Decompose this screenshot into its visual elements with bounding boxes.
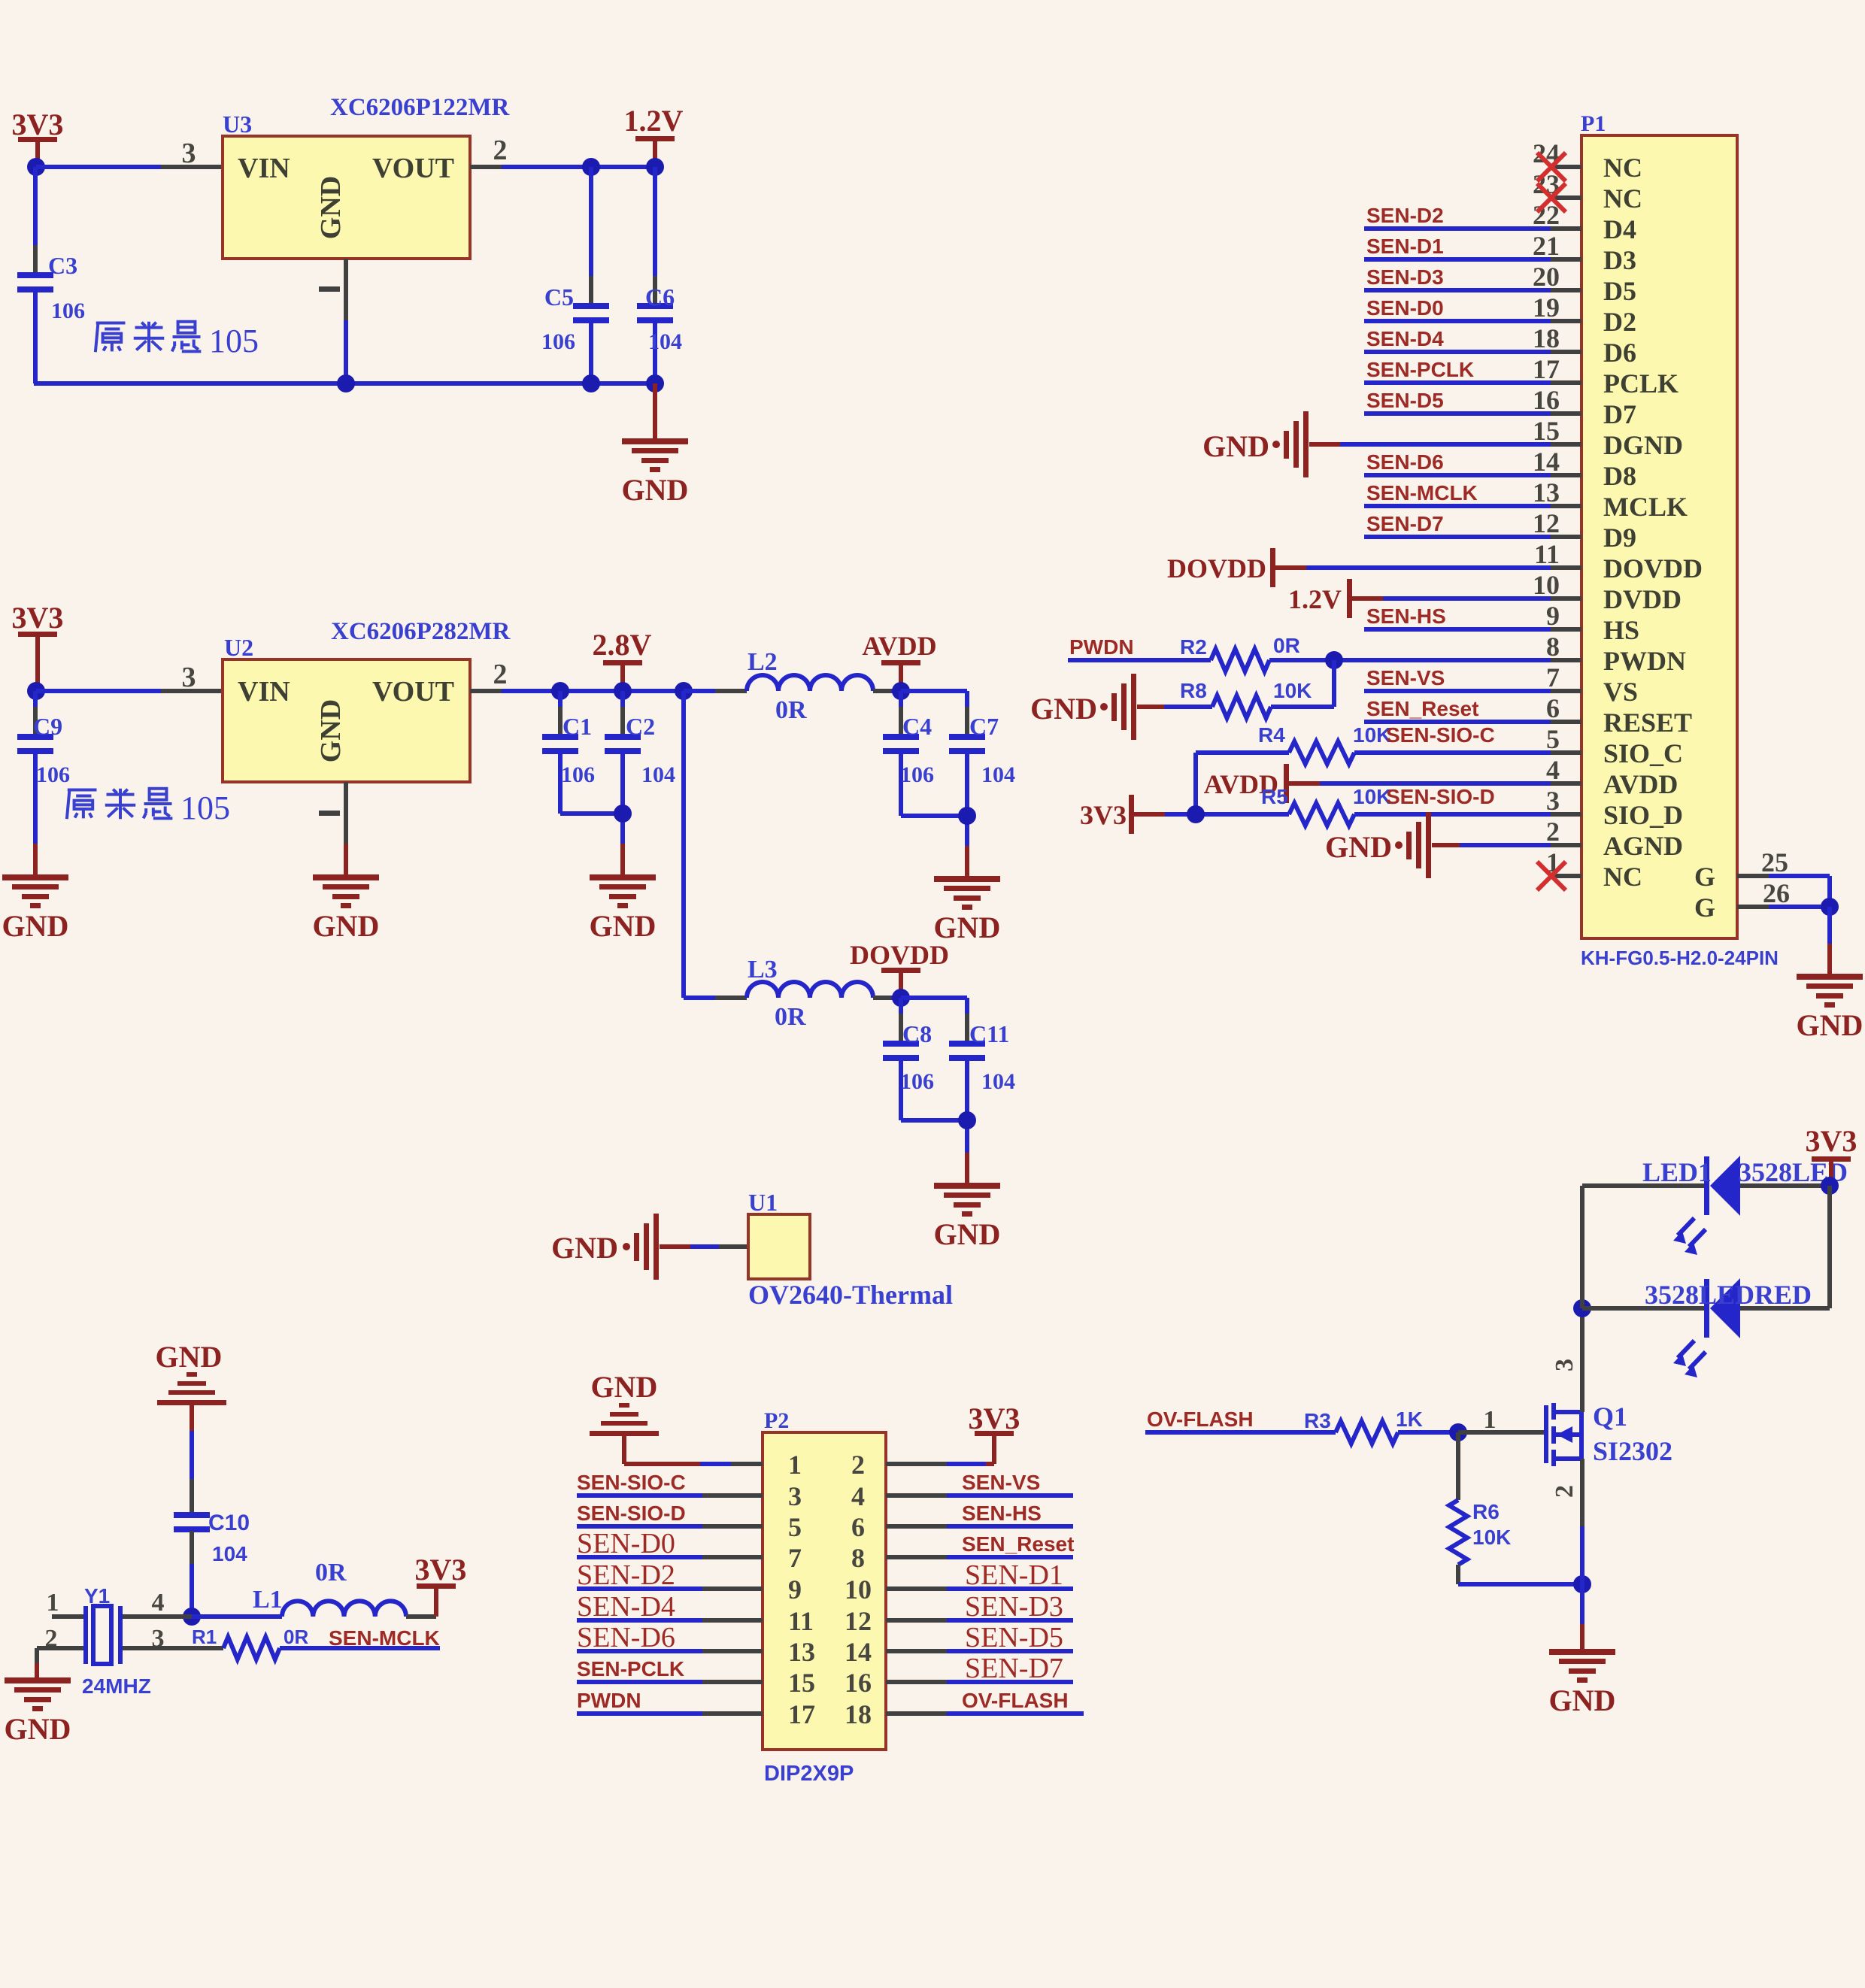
P1 pin name DVDD (pin 10)	[1603, 584, 1682, 614]
svg-text:SEN-D2: SEN-D2	[1366, 204, 1444, 227]
wire net SEN-SIO-D to P2 pin 5	[577, 1524, 763, 1529]
wire junction to L1	[192, 1614, 282, 1619]
svg-text:C4: C4	[902, 713, 932, 740]
svg-text:GND: GND	[1797, 1008, 1863, 1042]
P1 pin name PCLK (pin 17)	[1603, 368, 1679, 399]
U3 pin name GND (rotated)	[315, 176, 347, 239]
P1 part KH-FG0.5-H2.0-24PIN	[1581, 947, 1779, 969]
svg-text:R4: R4	[1258, 723, 1285, 747]
svg-text:3: 3	[182, 138, 196, 169]
svg-text:U3: U3	[223, 111, 252, 138]
P2 pin number 9	[788, 1574, 802, 1605]
thermal pad U1 body	[748, 1214, 810, 1279]
svg-text:C1: C1	[563, 713, 592, 740]
capacitor C4	[883, 691, 919, 816]
P1 pin name D9 (pin 12)	[1603, 523, 1636, 553]
wire ground to U1	[660, 1244, 748, 1249]
svg-text:8: 8	[1546, 632, 1560, 662]
svg-text:NC: NC	[1603, 153, 1642, 183]
U3 pin name VOUT	[372, 153, 454, 184]
P1 pin number 21	[1533, 231, 1560, 261]
svg-text:0R: 0R	[775, 1003, 806, 1031]
svg-text:Q1: Q1	[1593, 1402, 1627, 1432]
P1 pin number 19	[1533, 292, 1560, 323]
note text 原来是105 (top)	[96, 322, 259, 359]
P1 pin name D4 (pin 22)	[1603, 214, 1636, 244]
U2 pin number 2	[493, 659, 508, 690]
ground symbol (U1, side style)	[551, 1214, 659, 1280]
wire 2.8V rail to L2	[684, 689, 747, 693]
P1 pin name D6 (pin 18)	[1603, 338, 1636, 368]
svg-text:VOUT: VOUT	[372, 676, 454, 708]
P1 pin 19 stub	[1551, 319, 1581, 323]
LED 3528LEDRED	[1673, 1278, 1740, 1377]
resistor R8	[1212, 695, 1271, 718]
connector P1 body	[1581, 135, 1737, 938]
U2 GND pin number 1 mark	[319, 811, 340, 816]
svg-text:8: 8	[851, 1543, 865, 1573]
wire Q1 source to ground	[1580, 1459, 1584, 1649]
R5 value 10K	[1353, 785, 1391, 808]
P1 pin number 6	[1546, 693, 1560, 723]
svg-text:SEN-D0: SEN-D0	[577, 1528, 675, 1559]
P1 pin number 24	[1533, 138, 1560, 168]
svg-text:16: 16	[845, 1668, 872, 1698]
svg-text:SEN-VS: SEN-VS	[962, 1471, 1040, 1494]
svg-text:SEN-D2: SEN-D2	[577, 1559, 675, 1591]
net label SEN_Reset	[1366, 697, 1478, 720]
svg-text:GND: GND	[315, 699, 347, 762]
svg-text:106: 106	[36, 762, 70, 787]
junction GND rail/C5	[582, 374, 600, 392]
svg-text:106: 106	[900, 1069, 934, 1094]
svg-text:Y1: Y1	[84, 1584, 110, 1608]
wire net SEN-D0 to P2 pin 7	[577, 1555, 763, 1559]
Q1 part SI2302	[1593, 1436, 1672, 1466]
wire net SEN-HS to P1 pin 9	[1364, 627, 1551, 632]
designator C1	[563, 713, 592, 740]
designator Q1	[1593, 1402, 1627, 1432]
svg-text:PWDN: PWDN	[577, 1689, 641, 1712]
svg-text:3V3: 3V3	[12, 108, 64, 141]
P1 pin number 26	[1763, 878, 1790, 908]
no-connect X on P1 pin 23	[1537, 183, 1566, 212]
capacitor C6	[637, 167, 673, 383]
C2 value 104	[641, 762, 675, 787]
svg-text:SEN-SIO-C: SEN-SIO-C	[577, 1471, 686, 1494]
svg-text:GND: GND	[313, 909, 380, 943]
R2 value 0R	[1273, 634, 1300, 657]
transistor Q1 (SI2302 MOSFET)	[1546, 1403, 1581, 1466]
P1 pin 3 stub	[1551, 812, 1581, 817]
svg-text:SEN-SIO-D: SEN-SIO-D	[577, 1502, 686, 1525]
svg-text:C5: C5	[544, 283, 574, 311]
svg-text:D2: D2	[1603, 307, 1636, 337]
wire L2 to AVDD node	[873, 689, 901, 693]
wire net SEN-D7 to P1 pin 12	[1364, 535, 1551, 539]
wire ground to P1 pin 15	[1309, 442, 1551, 447]
ground symbol (P1 AGND, side style)	[1325, 812, 1431, 878]
svg-text:106: 106	[541, 329, 575, 354]
wire net SEN-D7 from P2 pin 16	[886, 1680, 1073, 1684]
wire U2 VOUT to 2.8V rail	[470, 689, 684, 693]
svg-text:106: 106	[51, 299, 85, 323]
resistor R5	[1289, 803, 1354, 826]
ground symbol (C4 C7)	[934, 876, 1001, 944]
P2 pin number 15	[788, 1668, 815, 1698]
R4 value 10K	[1353, 723, 1391, 747]
wire net SEN-D4 to P1 pin 18	[1364, 350, 1551, 354]
svg-text:GND: GND	[5, 1712, 71, 1746]
wire PWDN to R2	[1068, 658, 1211, 662]
net label SEN-D4	[1366, 327, 1444, 350]
P2 pin number 11	[788, 1606, 814, 1636]
P1 pin number 11	[1534, 539, 1560, 569]
designator C9	[33, 713, 62, 740]
P1 pin name AVDD (pin 4)	[1603, 769, 1678, 799]
net label SEN-D1	[1366, 235, 1444, 258]
resistor R6	[1449, 1500, 1467, 1565]
net label SEN-SIO-D (P2 left)	[577, 1502, 686, 1525]
capacitor C7	[949, 691, 985, 876]
svg-text:L3: L3	[748, 956, 778, 983]
R3 value 1K	[1396, 1408, 1423, 1431]
junction 2.8V rail branch	[675, 682, 693, 700]
P2 pin number 2	[851, 1450, 865, 1480]
Q1 gate pin number 1	[1484, 1406, 1497, 1434]
P2 pin number 10	[845, 1574, 872, 1605]
net label OV-FLASH (Q1 gate)	[1147, 1408, 1254, 1431]
net label SEN-D0 (P2 left)	[577, 1528, 675, 1559]
power port 1.2V (U3 output)	[624, 104, 684, 167]
designator U1	[748, 1189, 778, 1216]
ground symbol (Y1 pin 2)	[5, 1677, 71, 1746]
P1 pin 8 stub	[1551, 658, 1581, 662]
wire net SEN-D6 to P1 pin 14	[1364, 473, 1551, 477]
U3 pin number 2	[493, 135, 508, 166]
svg-text:U1: U1	[748, 1189, 778, 1216]
svg-text:C10: C10	[208, 1511, 250, 1535]
U2 GND pin wire	[344, 782, 348, 874]
U2 pin name VIN	[238, 676, 290, 708]
svg-text:17: 17	[1533, 354, 1560, 384]
svg-text:10K: 10K	[1472, 1526, 1511, 1549]
designator R4	[1258, 723, 1285, 747]
wire C4 bottom to C7	[901, 814, 967, 818]
regulator U3 body	[223, 136, 470, 259]
wire R4 branch from 3V3 node	[1196, 753, 1289, 814]
svg-text:GND: GND	[934, 1217, 1001, 1251]
svg-text:DIP2X9P: DIP2X9P	[764, 1762, 854, 1786]
wire junction down to R8	[1332, 660, 1336, 707]
P1 pin name NC (pin 1)	[1603, 862, 1642, 892]
svg-text:KH-FG0.5-H2.0-24PIN: KH-FG0.5-H2.0-24PIN	[1581, 947, 1779, 969]
svg-text:14: 14	[1533, 447, 1560, 477]
designator U2	[224, 634, 253, 661]
resistor R1	[223, 1637, 280, 1659]
svg-text:1K: 1K	[1396, 1408, 1423, 1431]
P1 pin number 14	[1533, 447, 1560, 477]
svg-text:14: 14	[845, 1637, 872, 1667]
power port 3V3 (R5 pull-up)	[1080, 795, 1134, 834]
designator R8	[1180, 679, 1207, 702]
designator C2	[626, 713, 655, 740]
svg-text:GND: GND	[315, 176, 347, 239]
svg-text:VOUT: VOUT	[372, 153, 454, 184]
svg-text:AVDD: AVDD	[1603, 769, 1678, 799]
svg-text:1.2V: 1.2V	[624, 104, 684, 138]
svg-text:SEN-D5: SEN-D5	[1366, 389, 1444, 412]
wire U3 ground rail	[34, 381, 655, 386]
svg-text:GND: GND	[1202, 429, 1269, 463]
net label SEN-D3	[1366, 265, 1444, 289]
svg-text:LED1: LED1	[1642, 1157, 1712, 1187]
svg-text:1: 1	[47, 1589, 59, 1617]
inductor L1	[282, 1601, 406, 1617]
P1 pin name D2 (pin 19)	[1603, 307, 1636, 337]
P1 pin name D5 (pin 20)	[1603, 276, 1636, 306]
svg-text:12: 12	[845, 1606, 872, 1636]
wire R5 to P1 pin 3	[1354, 812, 1551, 817]
net label SEN-D7	[1366, 512, 1444, 535]
wire Y1 pin 4 to junction	[123, 1614, 192, 1619]
svg-text:9: 9	[1546, 601, 1560, 631]
P1 pin 12 stub	[1551, 535, 1581, 539]
Q1 source pin number 2 (rotated)	[1551, 1485, 1578, 1498]
P1 pin number 4	[1546, 755, 1560, 785]
C9 value 106	[36, 762, 70, 787]
svg-text:HS: HS	[1603, 615, 1639, 645]
power port 1.2V (P1 pin 10)	[1288, 579, 1352, 618]
svg-text:3V3: 3V3	[1080, 800, 1127, 830]
wire gate junction to Q1	[1458, 1430, 1544, 1435]
net label SEN-D2	[1366, 204, 1444, 227]
U2 pin name GND (rotated)	[315, 699, 347, 762]
svg-text:AVDD: AVDD	[862, 631, 936, 661]
wire ground to P1 pin 2	[1432, 843, 1551, 847]
C11 value 104	[981, 1069, 1015, 1094]
svg-text:SEN-PCLK: SEN-PCLK	[577, 1657, 684, 1680]
svg-text:SEN-D3: SEN-D3	[965, 1591, 1063, 1623]
net label SEN-D6 (P2 left)	[577, 1622, 675, 1653]
P1 pin number 20	[1533, 262, 1560, 292]
svg-text:10K: 10K	[1273, 679, 1312, 702]
designator P2	[764, 1408, 789, 1433]
svg-text:R6: R6	[1472, 1500, 1500, 1523]
power port 3V3 (P2 pin 2)	[969, 1402, 1020, 1464]
net label SEN-D7 (P2 right)	[965, 1653, 1063, 1684]
svg-text:SEN-D4: SEN-D4	[577, 1591, 675, 1623]
svg-text:SEN-D6: SEN-D6	[577, 1622, 675, 1653]
designator C8	[902, 1020, 932, 1047]
wire R3 to gate junction	[1398, 1430, 1458, 1435]
net label SEN-HS	[1366, 605, 1446, 628]
wire U3 VOUT to 1.2V rail	[470, 165, 655, 169]
junction GND rail/C6/GND	[646, 374, 664, 392]
P1 pin name D7 (pin 16)	[1603, 399, 1636, 429]
wire 3V3 to R5	[1134, 812, 1289, 817]
svg-text:VIN: VIN	[238, 153, 290, 184]
designator C10	[208, 1511, 250, 1535]
ground symbol (U2 GND)	[313, 874, 380, 943]
power port AVDD (filter)	[862, 631, 936, 691]
P1 pin name NC (pin 23)	[1603, 183, 1642, 214]
R8 value 10K	[1273, 679, 1312, 702]
Q1 drain pin number 3 (rotated)	[1551, 1359, 1578, 1371]
net label SEN-D5	[1366, 389, 1444, 412]
svg-text:OV2640-Thermal: OV2640-Thermal	[748, 1280, 953, 1310]
svg-text:6: 6	[851, 1512, 865, 1542]
power port 2.8V (U2 output)	[593, 628, 652, 691]
U2 pin number 3	[182, 662, 196, 693]
svg-text:16: 16	[1533, 385, 1560, 415]
wire Y1 pin 2 to ground	[37, 1648, 83, 1677]
svg-text:SEN-HS: SEN-HS	[962, 1502, 1042, 1525]
ground symbol (C9)	[2, 874, 69, 943]
junction 1.2V/C6	[646, 158, 664, 176]
svg-text:GND: GND	[1549, 1683, 1616, 1717]
svg-text:10: 10	[845, 1574, 872, 1605]
net label SEN-D2 (P2 left)	[577, 1559, 675, 1591]
svg-text:105: 105	[180, 789, 230, 826]
junction R3/R6/gate	[1449, 1423, 1467, 1441]
designator R2	[1180, 635, 1207, 659]
svg-text:SEN-VS: SEN-VS	[1366, 666, 1445, 689]
LED LED1 (3528LED)	[1673, 1156, 1740, 1255]
net label SEN-SIO-C	[1386, 723, 1495, 747]
svg-text:15: 15	[1533, 416, 1560, 446]
wire DOVDD node to C11	[901, 996, 967, 1000]
svg-text:P2: P2	[764, 1408, 789, 1433]
P2 pin number 14	[845, 1637, 872, 1667]
svg-text:SEN-D7: SEN-D7	[1366, 512, 1444, 535]
wire G25 to ground	[1769, 876, 1830, 907]
junction GND rail/U3 GND	[337, 374, 355, 392]
designator L1	[253, 1586, 283, 1614]
ground symbol (P1 DGND, side style)	[1202, 411, 1309, 477]
designator C7	[969, 713, 999, 740]
P1 pin number 5	[1546, 724, 1560, 754]
svg-text:3V3: 3V3	[415, 1553, 467, 1586]
svg-text:SEN-D1: SEN-D1	[965, 1559, 1063, 1591]
svg-text:SEN-D7: SEN-D7	[965, 1653, 1063, 1684]
wire OV-FLASH to R3	[1145, 1430, 1336, 1435]
Y1 pin number 3	[152, 1625, 165, 1653]
wire net SEN-PCLK to P2 pin 15	[577, 1680, 763, 1684]
P1 pin name VS (pin 7)	[1603, 677, 1638, 707]
net label SEN-D0	[1366, 296, 1444, 320]
P2 pin number 17	[788, 1699, 815, 1729]
L2 value 0R	[775, 696, 807, 724]
svg-text:P1: P1	[1581, 111, 1606, 136]
P1 pin name RESET (pin 6)	[1603, 708, 1692, 738]
wire net SEN-D5 from P2 pin 14	[886, 1649, 1073, 1653]
svg-text:26: 26	[1763, 878, 1790, 908]
U3 pin name VIN	[238, 153, 290, 184]
svg-text:SI2302: SI2302	[1593, 1436, 1672, 1466]
power port DOVDD (filter)	[850, 940, 949, 998]
svg-text:GND: GND	[2, 909, 69, 943]
svg-text:DVDD: DVDD	[1603, 584, 1682, 614]
P1 pin number 25	[1761, 847, 1788, 877]
net label SEN-HS (P2 right)	[962, 1502, 1042, 1525]
P1 pin number 18	[1533, 323, 1560, 353]
svg-text:SEN-D1: SEN-D1	[1366, 235, 1444, 258]
C5 value 106	[541, 329, 575, 354]
junction G25/G26	[1821, 898, 1839, 916]
svg-text:NC: NC	[1603, 862, 1642, 892]
wire net SEN-D6 to P2 pin 13	[577, 1649, 763, 1653]
svg-text:104: 104	[212, 1542, 247, 1565]
P2 pin number 3	[788, 1481, 802, 1511]
svg-text:G: G	[1694, 862, 1715, 892]
svg-text:C8: C8	[902, 1020, 932, 1047]
svg-text:2: 2	[493, 659, 508, 690]
svg-text:2.8V: 2.8V	[593, 628, 652, 662]
P2 pin number 5	[788, 1512, 802, 1542]
wire 1.2V to P1 pin 10	[1352, 596, 1551, 601]
ground symbol (P2 pin1, inverted)	[590, 1370, 659, 1436]
P1 pin 11 stub	[1551, 565, 1581, 570]
svg-text:6: 6	[1546, 693, 1560, 723]
designator R1	[192, 1626, 217, 1648]
LED2 part 3528LEDRED	[1645, 1280, 1812, 1310]
ground symbol (C10, inverted)	[156, 1340, 226, 1405]
power port 3V3 (U2 input)	[12, 601, 64, 691]
wire gate junction down to R6	[1456, 1432, 1460, 1500]
resistor R2	[1211, 649, 1269, 671]
svg-text:NC: NC	[1603, 183, 1642, 214]
svg-text:XC6206P282MR: XC6206P282MR	[331, 618, 511, 645]
Y1 pin number 1	[47, 1589, 59, 1617]
P2 pin number 16	[845, 1668, 872, 1698]
svg-text:SEN-SIO-D: SEN-SIO-D	[1386, 785, 1495, 808]
svg-text:104: 104	[641, 762, 675, 787]
net label SEN-D1 (P2 right)	[965, 1559, 1063, 1591]
P1 pin name DGND (pin 15)	[1603, 430, 1683, 460]
P2 pin number 8	[851, 1543, 865, 1573]
P1 pin 14 stub	[1551, 473, 1581, 477]
junction C1/C2 ground	[614, 805, 632, 823]
R6 value 10K	[1472, 1526, 1511, 1549]
capacitor C1	[542, 691, 578, 814]
P1 pin G25 stub	[1737, 874, 1769, 878]
wire ground to P2 pin 1	[624, 1436, 763, 1464]
svg-text:GND: GND	[1325, 830, 1392, 864]
svg-text:106: 106	[561, 762, 595, 787]
P2 part DIP2X9P	[764, 1762, 854, 1786]
inductor L2	[747, 675, 873, 691]
svg-text:9: 9	[788, 1574, 802, 1605]
P1 pin number 8	[1546, 632, 1560, 662]
wire net SEN-D4 to P2 pin 11	[577, 1618, 763, 1623]
svg-text:SEN-D5: SEN-D5	[965, 1622, 1063, 1653]
wire net SEN-D2 to P1 pin 22	[1364, 226, 1551, 231]
svg-text:11: 11	[1534, 539, 1560, 569]
svg-text:GND: GND	[622, 473, 689, 507]
ground symbol (Q1 source)	[1549, 1649, 1616, 1717]
svg-text:L1: L1	[253, 1586, 283, 1614]
U2 part number XC6206P282MR	[331, 618, 511, 645]
wire G26 to ground	[1769, 905, 1830, 909]
wire P2 pin 2 to 3V3	[886, 1462, 994, 1466]
P1 pin name SIO_D (pin 3)	[1603, 800, 1683, 830]
svg-text:DOVDD: DOVDD	[1603, 553, 1703, 583]
svg-text:PCLK: PCLK	[1603, 368, 1679, 399]
net label OV-FLASH (P2 right)	[962, 1689, 1069, 1712]
wire Y1 pin 3 to R1	[123, 1646, 223, 1650]
C6 value 104	[648, 329, 682, 354]
